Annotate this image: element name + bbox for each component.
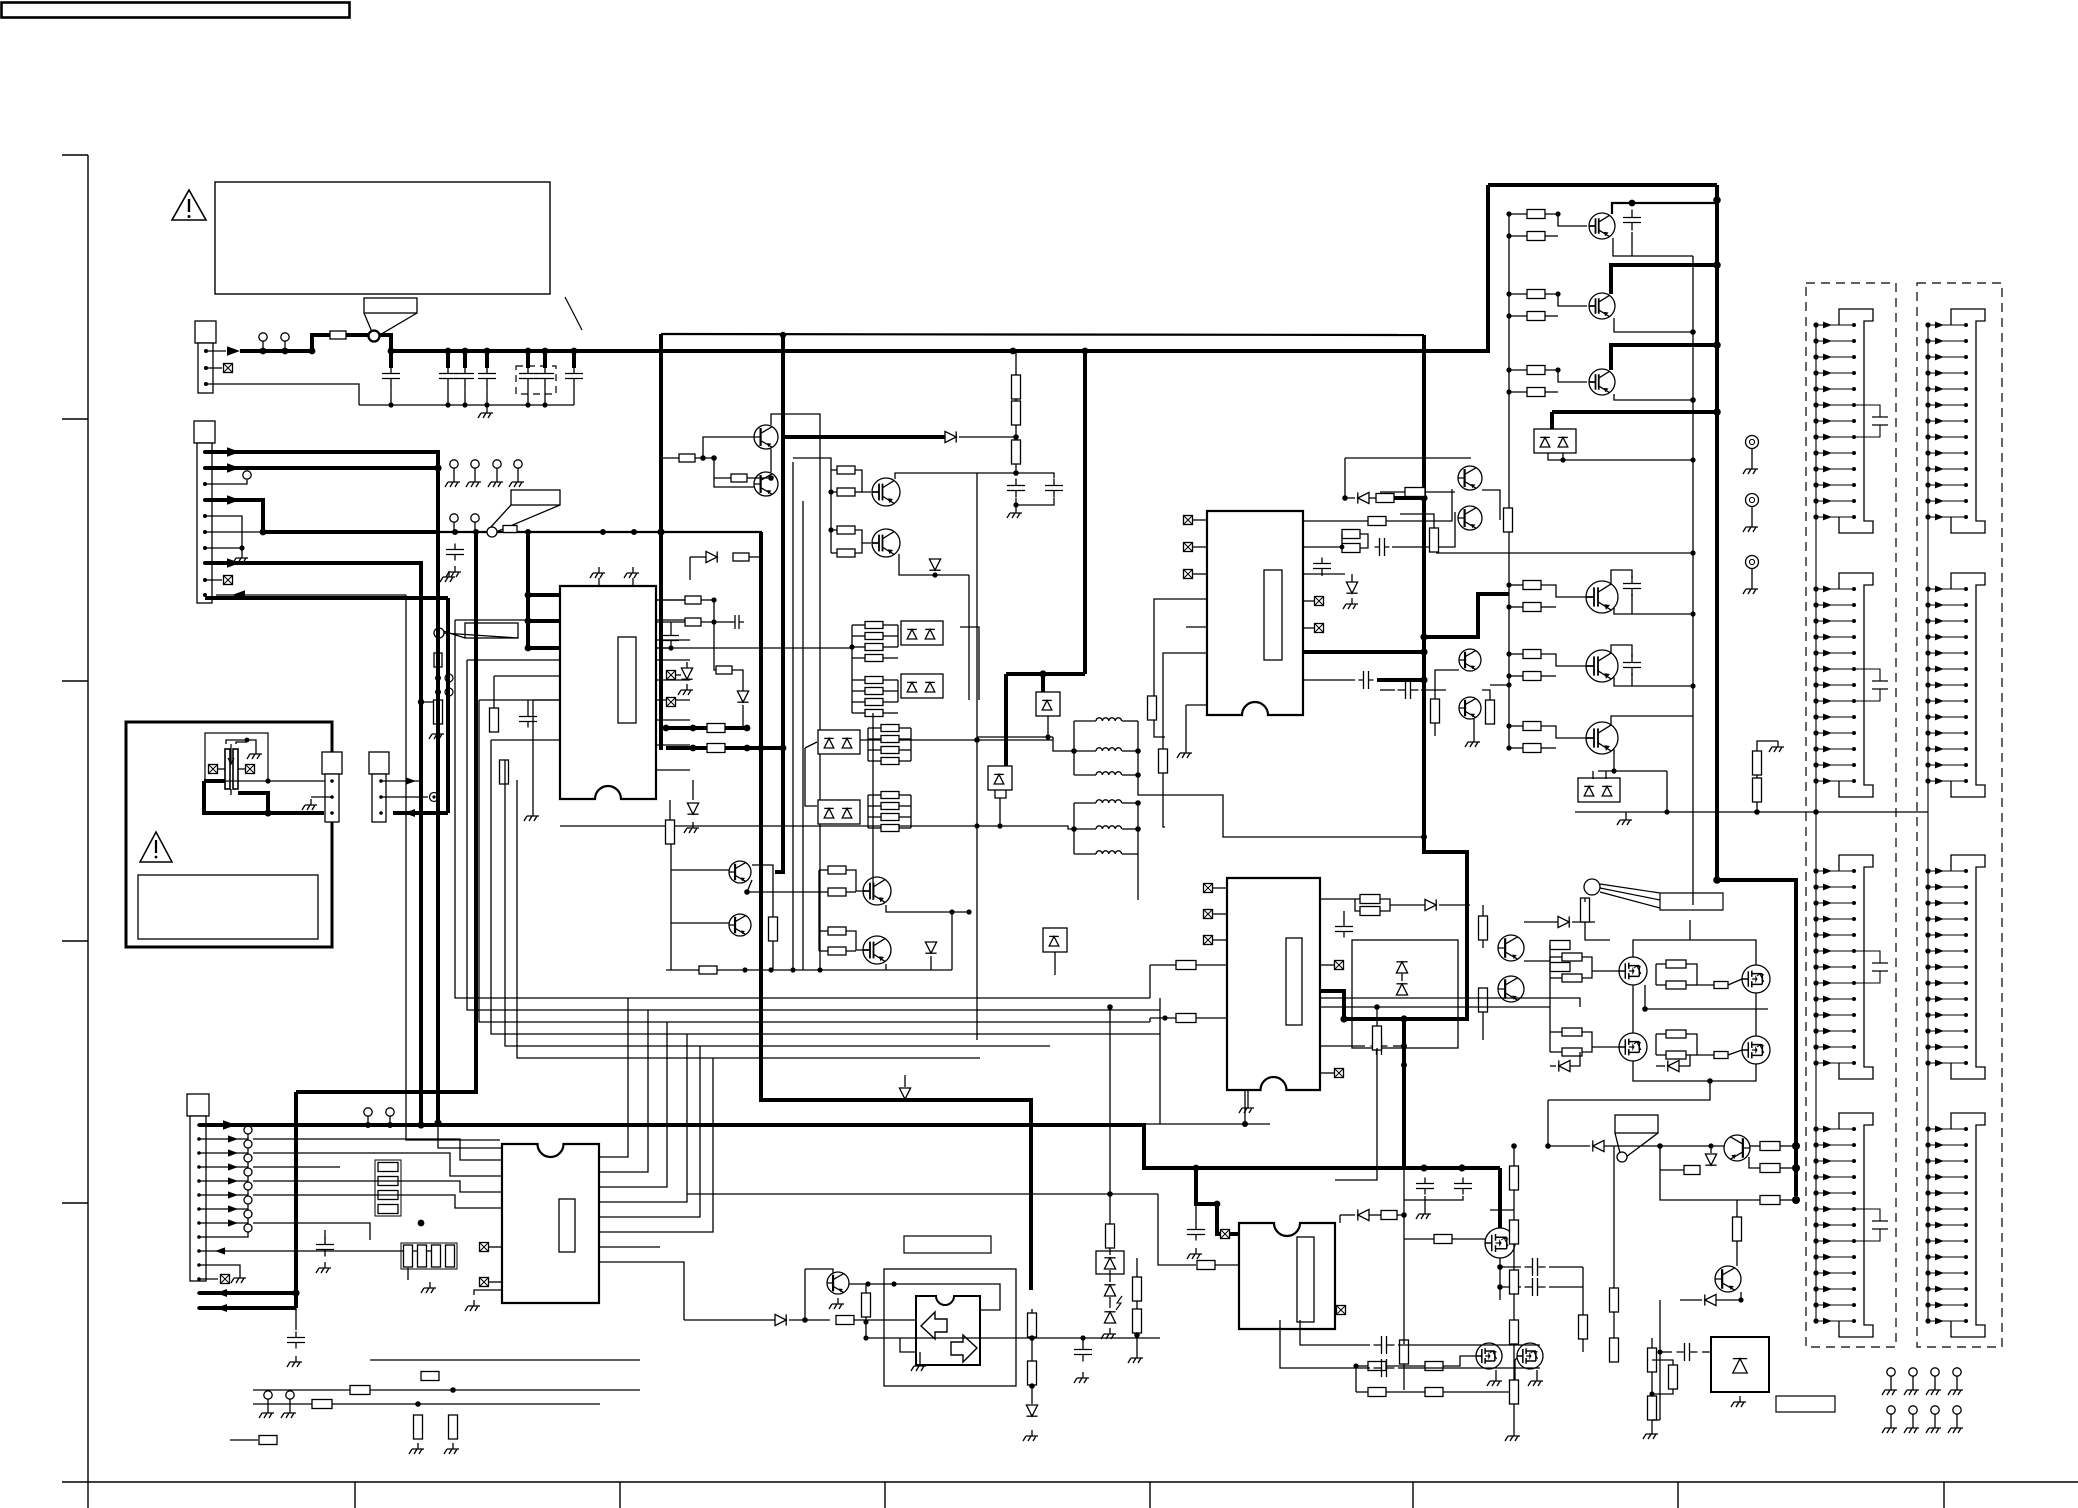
wire (1612, 203, 1717, 214)
capacitor C31 (316, 1238, 334, 1257)
wire cap to rail (486, 384, 488, 405)
wire (886, 905, 969, 912)
junction (525, 529, 531, 535)
crossed terminal X5 (1184, 570, 1193, 579)
zener box (1096, 1251, 1124, 1274)
diode D18 (737, 691, 748, 702)
wire (852, 646, 865, 648)
wire (885, 964, 887, 970)
wire (1345, 458, 1355, 498)
junction (1506, 582, 1511, 587)
wire (1380, 899, 1390, 911)
wire (1300, 1320, 1370, 1345)
wire (1393, 1045, 1404, 1047)
capacitor C4 (478, 368, 496, 385)
wire long y826 (560, 825, 977, 827)
connector CNB4 pin 2 (1925, 1142, 1968, 1149)
CN1 pin 2 (204, 366, 208, 370)
wire (1074, 828, 1096, 830)
wire IC4 out (599, 1058, 713, 1232)
wire (831, 529, 837, 531)
resistor R40 (733, 553, 749, 561)
wire (855, 491, 862, 493)
wire (1015, 425, 1017, 440)
diode D34 element (1540, 437, 1550, 447)
connector CNA1 housing (1839, 309, 1873, 533)
test point TP10 (244, 1196, 252, 1204)
wire (1136, 1301, 1138, 1309)
junction (849, 644, 854, 649)
junction (434, 1119, 441, 1126)
resistor R43 (1342, 530, 1360, 539)
wire thick stub (1394, 496, 1424, 500)
junction (1458, 1164, 1465, 1171)
crossed terminal X14 (246, 765, 255, 774)
border tick (619, 1482, 621, 1508)
wire bundle horizontal (660, 1045, 1050, 1047)
junction (1792, 1196, 1800, 1204)
junction (1135, 800, 1141, 806)
wire (661, 457, 679, 459)
wire (868, 760, 881, 762)
wire (1109, 1270, 1111, 1282)
junction (1690, 550, 1695, 555)
wire (772, 941, 774, 970)
transistor Q13 (1589, 369, 1615, 395)
transistor Q20 (1586, 722, 1618, 754)
resistor R56 (1527, 232, 1545, 241)
crossed terminal X7 (1315, 624, 1324, 633)
wire bundle (253, 1152, 340, 1154)
wire (868, 827, 881, 829)
wire (1509, 747, 1523, 749)
wire (852, 635, 865, 637)
wire (1656, 1065, 1665, 1067)
wire (1499, 1258, 1501, 1300)
ground (1926, 1384, 1941, 1395)
connector CNB4 pin 3 (1925, 1158, 1968, 1165)
wire (883, 712, 898, 714)
resistor R35 (707, 724, 725, 733)
wire (1513, 1190, 1515, 1220)
wire to IC4 (438, 1125, 502, 1148)
test ring E1 (1746, 436, 1759, 464)
wire (1434, 723, 1436, 736)
test point TP9 (244, 1182, 252, 1190)
test point TP6 (244, 1140, 252, 1148)
wire (852, 690, 865, 692)
wire thick x1424 net (1344, 335, 1467, 1019)
wire (1550, 412, 1554, 430)
connector CNA2 pin bus (1815, 589, 1817, 781)
wire (1425, 491, 1455, 493)
wire base Q2 (714, 458, 754, 487)
wire (1614, 677, 1693, 686)
wire (1435, 670, 1459, 699)
junction (997, 823, 1002, 828)
junction (974, 823, 979, 828)
wire (900, 1338, 916, 1352)
junction (1082, 348, 1089, 355)
wire (831, 469, 837, 471)
label box (904, 1236, 991, 1253)
IC U2 driver (1207, 511, 1303, 715)
wire mid rail (1645, 985, 1768, 1009)
junction (631, 529, 637, 535)
signal arrow (227, 346, 240, 355)
resistor R106 (1760, 1142, 1780, 1151)
resistor R84 (312, 1400, 332, 1409)
wire (1550, 977, 1562, 979)
junction (828, 527, 833, 532)
wire (1631, 232, 1633, 256)
MOSFET Q30 (1742, 1036, 1770, 1064)
wire (1656, 984, 1666, 986)
junction (1629, 200, 1636, 207)
wire return down (406, 595, 500, 1140)
test point TP17 (1887, 1368, 1895, 1384)
test point TP4 (514, 460, 522, 476)
junction (663, 725, 670, 732)
connector CNA4 pin 4 (1813, 1174, 1856, 1181)
connector CNB4 pin 4 (1925, 1174, 1968, 1181)
wire (1360, 534, 1368, 548)
wire (689, 557, 691, 580)
junction (1690, 457, 1695, 462)
wire IC1 pin (494, 675, 560, 677)
connector CNB2 pin 9 (1925, 714, 1968, 721)
resistor R91 (1028, 1313, 1037, 1337)
resistor R99 (1579, 1315, 1588, 1339)
wire (1756, 802, 1758, 812)
wire thin x1404 (1403, 1168, 1405, 1340)
test ring E2 (1746, 494, 1759, 522)
wire (1659, 1300, 1661, 1420)
wire (1582, 957, 1619, 971)
wire (899, 760, 911, 762)
crossed terminal X17 (480, 1278, 489, 1287)
ground (429, 728, 444, 739)
wire (899, 727, 911, 729)
wire IC1 out (656, 619, 690, 621)
connector CNB3 pin 12 (1925, 1044, 1968, 1051)
resistor R46 (1159, 749, 1168, 773)
diode array D13 (818, 800, 860, 824)
wire (1513, 1244, 1515, 1270)
wire (1686, 1034, 1714, 1055)
wire left vert (670, 838, 672, 970)
wire CN3 pin (199, 1232, 248, 1237)
wire (1652, 1360, 1673, 1365)
wire bus y532 (439, 531, 762, 533)
junction (1713, 408, 1721, 416)
junction (1511, 1143, 1517, 1149)
wire (1490, 684, 1509, 686)
resistor R66 (1523, 581, 1541, 590)
junction (700, 455, 706, 461)
connector CNA4 pin 13 (1813, 1318, 1856, 1325)
crossed terminal X13 (209, 765, 218, 774)
wire (1163, 773, 1165, 827)
junction (1690, 611, 1695, 616)
wire (1158, 1194, 1196, 1265)
junction (1135, 826, 1141, 832)
wire (951, 912, 953, 970)
resistor R75 (378, 1163, 398, 1172)
resistor R39 (716, 666, 732, 674)
diode D50 (1668, 1060, 1679, 1071)
diode array D24 (988, 766, 1012, 790)
wire (1495, 1370, 1497, 1375)
capacitor C7 (565, 368, 583, 385)
connector CNB4 pin 1 (1925, 1126, 1968, 1133)
resistor R28 (828, 866, 846, 874)
junction (1690, 397, 1696, 403)
CN3 pin (197, 1235, 201, 1239)
test point TP12 (244, 1224, 252, 1232)
wire (340, 1139, 502, 1160)
zener diode D42 (1104, 1285, 1115, 1296)
wire (1054, 952, 1056, 975)
wire (1500, 1266, 1521, 1268)
test point TP3 (243, 471, 251, 479)
wire bundle horizontal (660, 997, 1150, 999)
junction (1013, 502, 1018, 507)
wire (1655, 964, 1657, 985)
junction (1039, 670, 1046, 677)
junction (418, 1220, 425, 1227)
CN3 pin (197, 1291, 201, 1295)
wire (1136, 1333, 1138, 1352)
resistor R96 (1197, 1261, 1215, 1270)
connector CNB2 pin 7 (1925, 682, 1968, 689)
wire gate bus (818, 870, 820, 951)
wire (1482, 940, 1484, 948)
junction (525, 645, 532, 652)
junction (790, 967, 795, 972)
wire cap to rail (447, 384, 449, 405)
wire thick x476 (296, 532, 476, 1092)
junction (415, 1401, 421, 1407)
wire long (253, 1389, 640, 1391)
wire (747, 880, 819, 892)
wire (868, 794, 881, 796)
wire y1338 (866, 1337, 1160, 1339)
wire (899, 816, 911, 818)
connector CNB2 pin 2 (1925, 602, 1968, 609)
CN2 pin (203, 482, 207, 486)
diode D16 (925, 942, 936, 953)
CN3 pin (197, 1263, 201, 1267)
wire (1356, 1391, 1368, 1393)
capacitor C23 (1623, 576, 1641, 597)
connector CNA3 pin 12 (1813, 1044, 1856, 1051)
wire CN2 p1 (205, 452, 438, 468)
CN3 pin (197, 1306, 201, 1310)
wire CN3 p1 long (199, 1125, 1500, 1168)
connector CNB3 pin 5 (1925, 932, 1968, 939)
wire (1403, 1340, 1405, 1344)
wire vert x793 (792, 462, 794, 970)
junction (1420, 676, 1427, 683)
wire IC2 pin (1193, 519, 1207, 521)
wire (849, 1284, 1000, 1310)
diode D31 (1425, 899, 1436, 910)
terminal X1 (224, 364, 233, 373)
wire (1613, 238, 1693, 256)
wire cap to rail (527, 384, 529, 405)
junction (690, 745, 697, 752)
wire (846, 891, 856, 893)
connector CNB2 pin 11 (1925, 746, 1968, 753)
connector CNB3 pin 8 (1925, 980, 1968, 987)
wire bundle horizontal (660, 1033, 1160, 1035)
junction (1690, 683, 1695, 688)
IC U3 vertical (1227, 878, 1320, 1090)
capacitor C27 (1854, 951, 1888, 983)
connector CNA3 pin 5 (1813, 932, 1856, 939)
resistor R115 (1510, 1166, 1519, 1190)
capacitor C13 (663, 630, 679, 647)
wire (1611, 645, 1632, 657)
ground (1882, 1422, 1897, 1433)
junction (282, 348, 289, 355)
resistor R32 (769, 917, 778, 941)
wire (1592, 771, 1594, 779)
resistor R19 (865, 710, 883, 717)
junction (1497, 1264, 1503, 1270)
wire (238, 768, 245, 770)
wire (854, 1319, 916, 1321)
wire (846, 931, 863, 950)
wire (1651, 1338, 1653, 1348)
wire IC1 out (656, 699, 690, 701)
test point TP5 (244, 1126, 252, 1134)
ground (684, 822, 699, 833)
junction (742, 967, 747, 972)
wire (247, 740, 256, 748)
connector CN5 (369, 752, 389, 822)
wire (1509, 293, 1527, 295)
junction (1642, 1006, 1648, 1012)
wire (226, 740, 247, 744)
junction (1071, 748, 1077, 754)
connector CNB3 pin 9 (1925, 996, 1968, 1003)
wire (684, 1319, 775, 1321)
degauss box (126, 722, 332, 947)
transistor Q2 (754, 472, 778, 496)
junction (1497, 1284, 1503, 1290)
diode D37 element (1584, 786, 1594, 796)
transistor Q8 (863, 936, 891, 964)
junction (434, 464, 441, 471)
ground (1882, 1384, 1897, 1395)
connector CNB4 pin 5 (1925, 1190, 1968, 1197)
resistor R107 (1760, 1164, 1780, 1173)
wire (236, 742, 247, 744)
wire CN3 p10 (199, 1250, 440, 1252)
wire (1570, 1052, 1580, 1066)
wire CN3 pin (199, 1176, 248, 1181)
wire (831, 552, 837, 554)
wire (1652, 1419, 1660, 1421)
test point (450, 514, 458, 531)
connector CNB2 pin 3 (1925, 618, 1968, 625)
wire (1403, 1364, 1405, 1390)
wire (804, 1269, 806, 1322)
border tick (1943, 1482, 1945, 1508)
junction (668, 645, 673, 650)
border tick (354, 1482, 356, 1508)
wire (1109, 1194, 1111, 1226)
wire (1356, 1365, 1368, 1367)
arrow (406, 777, 416, 784)
opto outer box (884, 1269, 1016, 1386)
wire (1749, 1157, 1760, 1168)
ground (1731, 1396, 1746, 1407)
wire (819, 930, 828, 932)
diode D39 (775, 1314, 786, 1325)
capacitor C33 (1525, 1258, 1546, 1276)
wire bundle horizontal (660, 1021, 1150, 1023)
junction (1029, 1383, 1035, 1389)
junction (711, 597, 716, 602)
connector CNB2 pin bus (1927, 589, 1929, 781)
junction (1506, 651, 1511, 656)
resistor R78 (378, 1205, 398, 1214)
transistor Q6 (729, 914, 751, 936)
wire CN2 p10 return (216, 594, 406, 596)
wire bundle (253, 1180, 340, 1182)
wire (1686, 1054, 1697, 1056)
wire thick branch1 (666, 726, 747, 730)
wire (493, 676, 495, 708)
wire (1656, 1054, 1666, 1056)
resistor R64 (1431, 699, 1440, 723)
junction (1421, 834, 1427, 840)
wire (1404, 1238, 1434, 1240)
wire (1541, 747, 1556, 749)
connector CNA1 pin 8 (1813, 434, 1856, 441)
ruler tick (62, 418, 88, 420)
wire base Q1 (703, 437, 754, 458)
jumper (435, 689, 441, 695)
IC U5 SMPS (1239, 1223, 1335, 1329)
resistor R4 (731, 474, 747, 482)
wire (1509, 235, 1527, 237)
wire CN3 p11 (199, 1265, 240, 1272)
diode D6 element (925, 629, 935, 639)
wire vert x873 (872, 713, 874, 900)
connector CNA1 pin 6 (1813, 402, 1856, 409)
resistor R57 (1527, 290, 1545, 299)
wire (1376, 1007, 1378, 1028)
diode D15 element (842, 808, 852, 818)
resistor R74 (434, 700, 443, 724)
capacitor C32 (1074, 1343, 1092, 1362)
connector CNB2 pin 6 (1925, 666, 1968, 673)
diode array D26 (1043, 928, 1067, 952)
wire (1015, 399, 1017, 401)
ground (1904, 1422, 1919, 1433)
wire (1185, 705, 1187, 747)
wire (819, 869, 828, 871)
connector CN2 (194, 421, 215, 603)
connector CNA4 pin 3 (1813, 1158, 1856, 1165)
wire (655, 647, 671, 649)
wire (1509, 653, 1523, 655)
wire (1473, 719, 1475, 736)
